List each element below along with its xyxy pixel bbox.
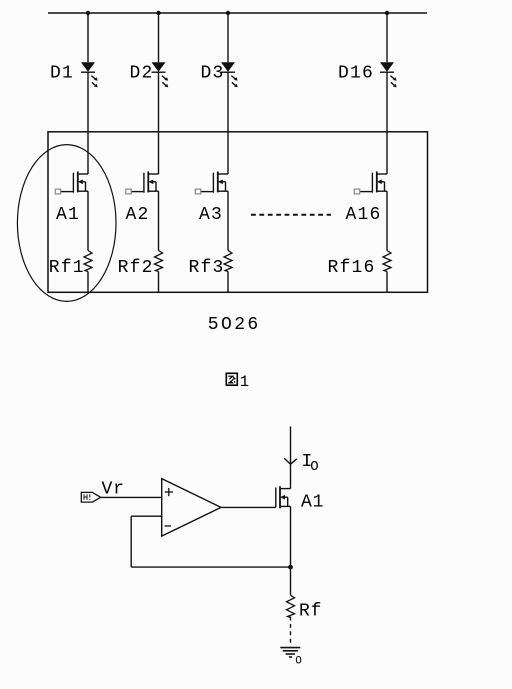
svg-text:D3: D3	[201, 64, 225, 84]
svg-text:A16: A16	[346, 205, 382, 225]
svg-text:Rf16: Rf16	[328, 258, 376, 278]
svg-text:D1: D1	[50, 64, 74, 84]
svg-text:Rf3: Rf3	[189, 258, 225, 278]
svg-text:D2: D2	[130, 64, 154, 84]
svg-text:Rf: Rf	[299, 602, 322, 622]
svg-text:A3: A3	[199, 205, 223, 225]
svg-text:5O26: 5O26	[208, 315, 261, 335]
svg-text:Vr: Vr	[102, 480, 125, 500]
svg-text:A2: A2	[126, 205, 150, 225]
svg-text:A1: A1	[56, 205, 80, 225]
svg-text:Rf1: Rf1	[49, 258, 85, 278]
svg-text:D16: D16	[338, 64, 374, 84]
svg-text:O: O	[310, 459, 319, 475]
svg-text:A1: A1	[301, 492, 324, 512]
svg-text:Rf2: Rf2	[118, 258, 154, 278]
svg-text:O: O	[295, 656, 302, 668]
svg-text:1: 1	[240, 373, 249, 391]
